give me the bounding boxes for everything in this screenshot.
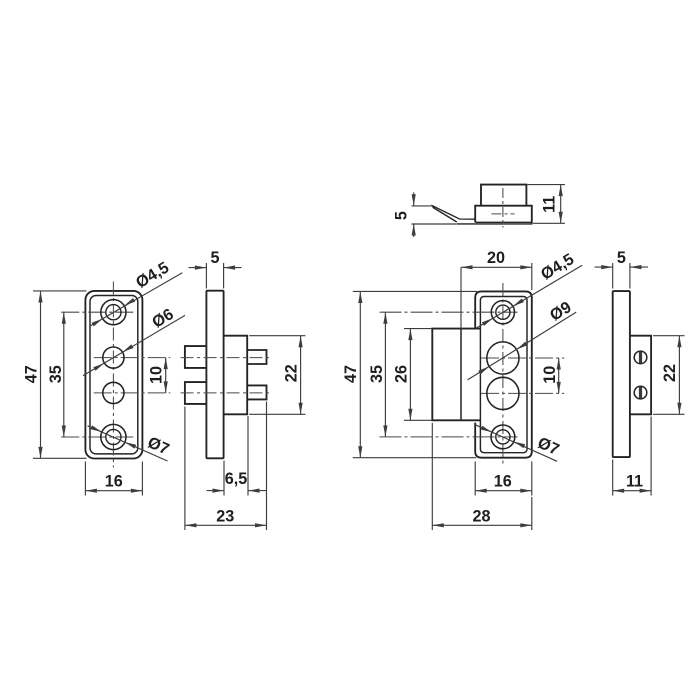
- view3 hole4 counterbore: [491, 425, 515, 449]
- view3 boss outline: [432, 329, 480, 421]
- view3 big hole lower: [487, 377, 519, 409]
- svg-text:28: 28: [472, 508, 490, 526]
- svg-text:26: 26: [392, 365, 410, 383]
- dim 20 dimension line: [461, 266, 532, 268]
- topview vertical centerline: [502, 188, 504, 228]
- view3 big hole lower centerline: [481, 392, 564, 394]
- dim 16 view1 extension left: [84, 462, 86, 496]
- dim 5 topview extension upper: [412, 205, 433, 207]
- dim 28 dimension line: [432, 524, 532, 526]
- svg-text:10: 10: [541, 366, 559, 384]
- view4 screw upper: [634, 351, 647, 364]
- svg-text:22: 22: [283, 364, 301, 382]
- dim 5 topview extension lower: [412, 223, 457, 225]
- dim 5 view4 extension right: [629, 263, 631, 289]
- view1 hole2: [103, 347, 124, 368]
- view4 screw lower slot: [639, 387, 642, 399]
- svg-text:11: 11: [626, 473, 643, 491]
- dim 11 topview extension top: [527, 184, 565, 186]
- dim 11 view4 dimension line: [613, 490, 651, 492]
- view2 stud lower-left: [185, 382, 207, 404]
- view2 stud lower centerline: [181, 392, 272, 394]
- dim 5 view4 extension left: [612, 263, 614, 289]
- view4 screw lower: [634, 386, 647, 399]
- dim 22 view2 extension bottom: [249, 413, 305, 415]
- svg-text:23: 23: [216, 508, 234, 526]
- leader diameter 4,5 view3: [476, 265, 582, 328]
- svg-text:5: 5: [210, 249, 219, 267]
- svg-text:11: 11: [541, 196, 559, 213]
- dim 5 view4 dimension line: [595, 266, 613, 268]
- dim 26 view3 extension top: [404, 328, 432, 330]
- view1 hole2 centerline: [94, 357, 171, 359]
- dim 11 topview dimension line: [560, 185, 562, 224]
- topview flange upper block: [481, 185, 526, 206]
- dim 35 view1 dimension line: [63, 312, 65, 437]
- topview bent tab: [433, 206, 476, 222]
- view1 hole1 bore: [106, 305, 121, 320]
- topview horizontal centermark: [492, 213, 515, 215]
- dim 47 view3 extension bottom: [353, 457, 476, 459]
- view3 hole1 centerline: [380, 311, 518, 313]
- view3 big hole upper: [487, 342, 519, 374]
- leader diameter 4,5 view1: [90, 273, 182, 326]
- dim 26 view3 dimension line: [409, 329, 411, 421]
- view2 boss: [224, 336, 248, 415]
- dim 20 extension left: [460, 267, 462, 328]
- dim 22 view4 extension top: [653, 335, 684, 337]
- view2 stud upper centerline: [181, 357, 272, 359]
- view3 hole1 bore: [496, 305, 510, 319]
- view4 screw upper slot: [639, 352, 642, 364]
- svg-text:20: 20: [487, 249, 505, 267]
- svg-text:22: 22: [661, 364, 679, 382]
- dim 47 view1 dimension line: [40, 291, 42, 458]
- dim 6,5 extension left: [223, 461, 225, 496]
- view2 plate: [206, 291, 223, 459]
- leader diameter 7 view1: [88, 426, 168, 461]
- dim 11 view4 extension left: [612, 460, 614, 496]
- dim 22 view4 dimension line: [678, 336, 680, 415]
- svg-text:16: 16: [494, 473, 512, 491]
- dim 16 view1 dimension line: [85, 490, 142, 492]
- view1 vertical centerline: [112, 282, 114, 468]
- view2 stud upper-right: [247, 350, 266, 364]
- dim 5 view2 extension right: [223, 263, 225, 289]
- view1 hole4 centerline: [61, 436, 136, 438]
- topview boss block: [475, 206, 532, 223]
- dim 10 view3 dimension line: [558, 358, 560, 393]
- dim 16 view3 dimension line: [475, 490, 532, 492]
- dim 23 extension left: [184, 407, 186, 531]
- view2 stud lower-right: [247, 385, 266, 399]
- dim 6,5 dimension line: [207, 490, 225, 492]
- dim 28 extension right: [531, 497, 533, 530]
- view3 hole1 counterbore: [491, 301, 514, 324]
- svg-text:35: 35: [368, 365, 386, 383]
- leader diameter 9 view3: [468, 312, 577, 380]
- dim 16 view1 extension right: [141, 462, 143, 496]
- dim 5 view2 dimension line: [189, 267, 207, 269]
- svg-text:5: 5: [617, 249, 626, 267]
- dim 20 extension right: [531, 263, 533, 290]
- dim 47 view3 extension top: [353, 290, 477, 292]
- dim 47 view1 extension top: [33, 290, 87, 292]
- dim 16 view3 extension right: [531, 462, 533, 496]
- view3 hole4 bore: [496, 430, 510, 444]
- view1 hole3 centerline: [94, 392, 171, 394]
- svg-text:10: 10: [148, 366, 166, 384]
- svg-text:5: 5: [393, 211, 411, 220]
- dim 22 view2 extension top: [249, 335, 305, 337]
- view3 fold edge: [460, 329, 462, 421]
- view3 plate inner outline: [480, 297, 527, 453]
- view4 plate: [613, 291, 630, 457]
- view1 hole1 counterbore: [101, 300, 126, 325]
- view3 hole4 centerline: [380, 436, 518, 438]
- dim 11 topview extension bottom: [533, 222, 565, 224]
- svg-text:47: 47: [22, 365, 40, 383]
- view3 big hole upper centerline: [481, 357, 564, 359]
- dim 28 extension left: [431, 423, 433, 530]
- dim 5 view2 extension left: [205, 263, 207, 289]
- view1 hole4 counterbore: [101, 424, 126, 449]
- dim 11 view4 extension right: [650, 417, 652, 496]
- svg-text:47: 47: [342, 365, 360, 383]
- view2 stud upper-left: [185, 346, 207, 368]
- dim 22 view2 dimension line: [300, 336, 302, 415]
- dim 26 view3 extension bottom: [404, 419, 432, 421]
- leader diameter 7 view3: [474, 424, 557, 461]
- view3 vertical centerline: [502, 283, 504, 467]
- svg-text:16: 16: [105, 473, 123, 491]
- view1 plate inner outline: [90, 296, 138, 454]
- view4 boss: [630, 336, 651, 415]
- dim 6,5 extension right: [247, 416, 249, 496]
- dim 35 view3 dimension line: [384, 312, 386, 437]
- view1 hole3: [103, 382, 124, 403]
- view1 hole4 bore: [106, 429, 121, 444]
- dim 22 view4 extension bottom: [653, 413, 684, 415]
- leader diameter 6 view1: [83, 315, 185, 375]
- topview base plate: [457, 222, 532, 224]
- view1 hole1 centerline: [61, 311, 136, 313]
- dim 47 view1 extension bottom: [33, 457, 87, 459]
- dim 47 view3 dimension line: [359, 292, 361, 458]
- svg-text:35: 35: [47, 365, 65, 383]
- dim 23 dimension line: [185, 524, 267, 526]
- dim 10 view1 dimension line: [165, 358, 167, 393]
- view1 plate outer outline: [85, 291, 142, 459]
- dim 23 extension right: [266, 402, 268, 531]
- svg-text:6,5: 6,5: [225, 470, 248, 488]
- view3 plate outer outline: [475, 291, 532, 457]
- dim 5 topview dimension line: [413, 193, 415, 206]
- dim 16 view3 extension left: [474, 462, 476, 496]
